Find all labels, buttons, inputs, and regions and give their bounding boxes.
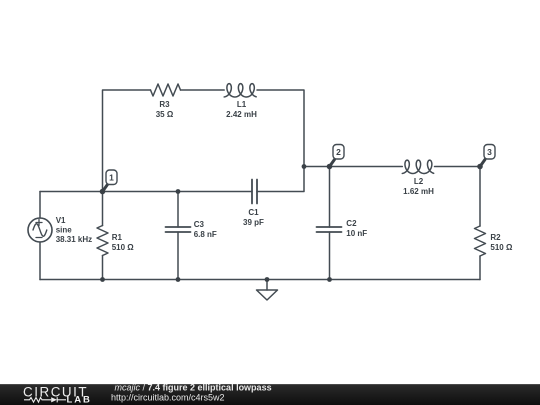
svg-text:39 pF: 39 pF [243, 218, 264, 227]
svg-text:C1: C1 [248, 208, 259, 217]
svg-text:L1: L1 [237, 100, 247, 109]
svg-text:3: 3 [487, 147, 492, 157]
svg-text:2.42 mH: 2.42 mH [226, 110, 257, 119]
svg-text:1.62 mH: 1.62 mH [403, 187, 434, 196]
svg-text:C2: C2 [346, 219, 357, 228]
svg-text:C3: C3 [194, 220, 205, 229]
svg-text:http://circuitlab.com/c4rs5w2: http://circuitlab.com/c4rs5w2 [111, 393, 225, 403]
svg-text:sine: sine [56, 226, 73, 235]
svg-text:510 Ω: 510 Ω [112, 243, 135, 252]
svg-text:38.31 kHz: 38.31 kHz [56, 235, 92, 244]
svg-text:35 Ω: 35 Ω [156, 110, 174, 119]
svg-text:2: 2 [336, 147, 341, 157]
svg-text:R2: R2 [490, 233, 501, 242]
svg-text:R1: R1 [112, 233, 123, 242]
svg-text:1: 1 [109, 172, 114, 182]
svg-text:R3: R3 [159, 100, 170, 109]
svg-text:LAB: LAB [67, 394, 92, 405]
svg-text:10 nF: 10 nF [346, 229, 367, 238]
svg-text:mcajic / 7.4 figure 2 elliptic: mcajic / 7.4 figure 2 elliptical lowpass [115, 382, 272, 392]
svg-text:6.8 nF: 6.8 nF [194, 230, 217, 239]
svg-text:510 Ω: 510 Ω [490, 243, 513, 252]
svg-text:V1: V1 [56, 216, 66, 225]
svg-text:L2: L2 [414, 177, 424, 186]
